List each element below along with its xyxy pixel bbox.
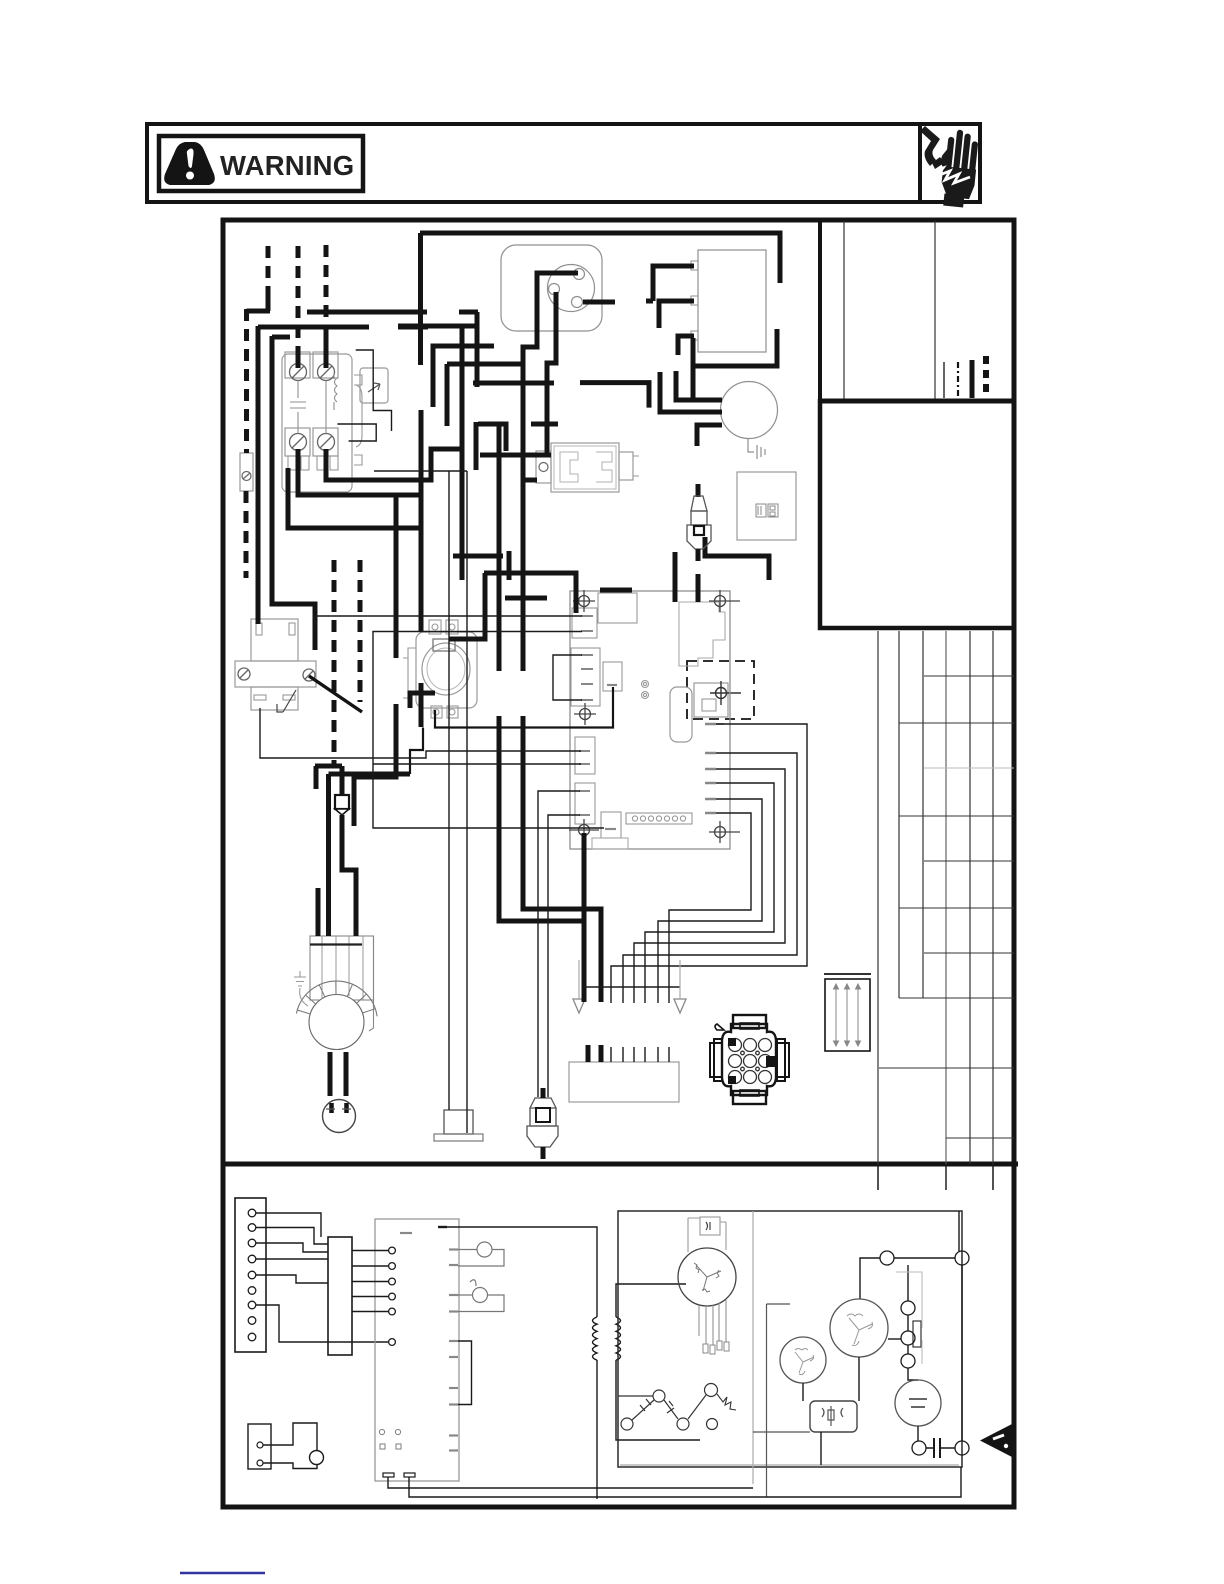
- wire staircase v2: [445, 364, 450, 426]
- board bottom comb: [626, 813, 692, 824]
- capacitor circle: [895, 1380, 941, 1426]
- flame sensor base: [527, 1126, 558, 1147]
- wire relay down: [820, 1432, 822, 1465]
- wire inducer line hot: [523, 273, 578, 671]
- board screw BR: [709, 821, 740, 843]
- door switch pin 1: [256, 623, 262, 635]
- chart row line 3: [924, 767, 1014, 769]
- wire junction elbow: [315, 764, 342, 769]
- lo block: [569, 1062, 679, 1102]
- wire left low stub: [505, 596, 547, 601]
- transformer primary coil: [593, 1317, 598, 1360]
- flame sensor top stub: [541, 1088, 546, 1098]
- gas valve solenoid tab 2: [446, 620, 458, 634]
- resistor arrows: [834, 984, 861, 1046]
- wire contact to motor: [860, 1258, 880, 1299]
- contactor tab 1: [288, 456, 296, 470]
- wire valve bypass lower: [354, 704, 396, 826]
- wire mid right elbow: [705, 537, 769, 580]
- flame rollout rounded box: [670, 687, 692, 742]
- pressure switch body: [551, 443, 619, 492]
- motor M3 circle: [830, 1299, 888, 1357]
- legend box left border: [818, 220, 822, 401]
- board screw TL: [573, 590, 595, 612]
- wire wrap tee: [691, 338, 696, 400]
- nine pin sockets: [729, 1039, 772, 1084]
- board screw TR: [709, 590, 740, 612]
- igniter circle: [458, 1242, 504, 1266]
- line fuse screw: [242, 472, 251, 481]
- motor M1 circle: [678, 1248, 736, 1306]
- wire top cross piece: [459, 310, 478, 315]
- speed tap link 3: [688, 1395, 706, 1419]
- wire inducer feed 2: [676, 371, 722, 400]
- junction box funnel: [335, 809, 349, 815]
- transformer terminal 2: [691, 296, 698, 305]
- board connector P2 pins: [581, 655, 593, 700]
- pressure switch right port: [619, 452, 633, 480]
- motor M1 leads: [699, 1300, 726, 1345]
- igniter base plate: [434, 1134, 483, 1141]
- blower housing right edge: [369, 936, 374, 1031]
- board screw BL: [569, 819, 599, 841]
- relay box: [810, 1401, 857, 1432]
- gas valve body: [416, 632, 477, 708]
- wire board P1 upper: [315, 616, 582, 630]
- gas valve terminal block: [433, 639, 455, 651]
- contactor top plate 1: [285, 352, 310, 378]
- speed tap link 1: [632, 1399, 654, 1420]
- wire cap down: [917, 1426, 919, 1441]
- board bottom connector: [601, 812, 621, 838]
- limit rect: [913, 1321, 921, 1347]
- inducer motor circle: [721, 382, 778, 439]
- chart row line 9: [879, 1067, 1014, 1069]
- wire door switch heavy lever: [309, 676, 362, 712]
- pressure switch port lines: [633, 456, 639, 476]
- legend column divider 1: [843, 221, 845, 401]
- contactor bottom plate 1: [285, 428, 310, 456]
- wire right riser: [961, 1265, 963, 1441]
- warning triangle icon: [164, 142, 215, 185]
- wire strip 5: [256, 1275, 328, 1283]
- wire inducer neutral: [547, 292, 556, 456]
- legend sample heavy dashed wire: [983, 356, 989, 398]
- nine pin connector bottom slot: [740, 1090, 759, 1096]
- chart row line 4: [899, 815, 1014, 817]
- wire cross mid: [473, 381, 554, 386]
- wire inducer feed 3: [697, 425, 722, 446]
- right box inner gray edge: [620, 1211, 959, 1484]
- speed tap link 2: [664, 1400, 678, 1419]
- nine pin connector nub: [715, 1024, 724, 1030]
- door switch upper body: [251, 619, 298, 661]
- board screw ML: [574, 703, 596, 725]
- wire junction drop: [342, 815, 356, 936]
- contactor tab 4: [330, 456, 338, 470]
- junction box: [335, 795, 349, 809]
- blower scroll blades: [297, 981, 375, 1014]
- wire L1 dash-dot drop: [244, 309, 249, 453]
- wire L3 solid tail: [324, 332, 329, 368]
- nine pin connector body: [722, 1024, 776, 1095]
- motor M1 winding: [694, 1263, 721, 1292]
- wire inducer third: [583, 300, 615, 305]
- wire strip 7: [256, 1305, 388, 1342]
- wire flame lead 1: [538, 791, 580, 1097]
- legend sample heavy wire: [970, 360, 975, 398]
- wire M3 to relay: [858, 1357, 860, 1401]
- board bottom connector tick: [605, 828, 616, 830]
- igniter pedestal: [444, 1110, 473, 1134]
- board lower leds: [379, 1429, 401, 1449]
- speed tap circle 5: [707, 1419, 718, 1430]
- board right top tick: [705, 724, 841, 813]
- speed tap circle 3: [621, 1418, 633, 1430]
- gas valve knob: [422, 643, 470, 695]
- wire igniter lead 1: [448, 471, 450, 1110]
- wire L1 elbow: [247, 309, 271, 314]
- nine pin connector right wing: [777, 1039, 789, 1081]
- wire long riser mid: [460, 325, 465, 580]
- wire blower lead 1: [328, 1052, 333, 1096]
- speed tap stub: [618, 1395, 653, 1397]
- door switch lever: [277, 690, 296, 712]
- cap symbol box: [688, 1217, 726, 1252]
- wire top cross A: [478, 424, 506, 451]
- wire blower lead 2: [344, 1052, 349, 1096]
- wire flame lead 2: [548, 815, 580, 1097]
- board MV tick: [607, 684, 617, 686]
- wire right cross 1: [453, 554, 503, 559]
- wire hum tick lead: [716, 723, 724, 725]
- board relay box: [598, 593, 637, 623]
- wire aux thin 2: [337, 424, 376, 441]
- contactor screw 1: [290, 364, 307, 381]
- contactor body: [282, 354, 352, 492]
- cap K2 bars: [934, 1438, 940, 1458]
- wire dashed short drop: [358, 560, 363, 702]
- wire thermostat staircase: [611, 724, 807, 1003]
- gas valve bottom tab 1: [431, 706, 442, 718]
- wire blower stub 1: [316, 888, 321, 936]
- thermostat strip: [235, 1198, 266, 1352]
- wire strip 3: [256, 1243, 328, 1252]
- wire transformer wrap: [691, 329, 777, 366]
- wire transformer T1: [653, 266, 694, 301]
- pressure switch left terminal: [536, 451, 551, 483]
- board bottom tick 1: [383, 1473, 394, 1477]
- gas valve knob inner: [427, 648, 465, 690]
- wire MV riser: [410, 728, 423, 775]
- board bottom tick 2: [404, 1473, 415, 1477]
- door switch lower pin 2: [283, 695, 295, 700]
- wire transformer T2: [659, 301, 694, 328]
- motor M3 winding: [847, 1314, 873, 1346]
- contactor tab 2: [301, 456, 309, 470]
- wire strip 4: [256, 1258, 328, 1260]
- run capacitor plug circle: [323, 1100, 356, 1133]
- spark igniter cone: [691, 496, 707, 511]
- humidifier inner square: [702, 699, 716, 711]
- wire junction riser: [340, 766, 345, 795]
- wire aux thin 1: [356, 350, 392, 431]
- transformer primary lead: [447, 1227, 597, 1317]
- wire inducer line hot lower: [523, 716, 601, 1002]
- gas valve solenoid tab 1: [429, 620, 441, 634]
- speed tap circle 1: [653, 1390, 665, 1402]
- wire divider stub 2: [945, 1164, 947, 1190]
- chart vertical line C: [922, 631, 924, 998]
- wire M2 to relay: [802, 1383, 804, 1401]
- limit column bracket: [896, 1272, 922, 1364]
- speed tap circle 2: [705, 1384, 718, 1397]
- inducer motor housing: [501, 245, 602, 331]
- contactor tab 3: [317, 456, 325, 470]
- wire board bottom 1: [388, 1477, 753, 1488]
- gas valve bottom tab 2: [447, 706, 458, 718]
- wire contactor left lower: [298, 449, 421, 495]
- inducer plug pin 1: [574, 269, 585, 280]
- pressure switch terminal circle: [539, 463, 548, 472]
- junction box contacts: [756, 504, 778, 517]
- contactor coil symbol: [290, 381, 306, 433]
- legend sample thin wire: [943, 362, 945, 398]
- wire mid drop 396: [394, 495, 399, 658]
- chart row line 1: [924, 675, 1014, 677]
- wire L1 dashed drop: [266, 246, 271, 298]
- wire right stub v2: [507, 551, 512, 580]
- chart row line 10: [946, 1137, 1014, 1139]
- chart vertical line D: [945, 631, 947, 1190]
- run capacitor pins: [332, 1103, 347, 1113]
- door switch lower pin 1: [254, 695, 266, 700]
- footer rule: [180, 1572, 265, 1574]
- contactor top plate 2: [313, 352, 338, 378]
- chart vertical line B: [898, 631, 900, 998]
- interlock wire upper: [263, 1423, 317, 1450]
- contact K2 right: [955, 1441, 969, 1455]
- wire second drop: [288, 468, 421, 632]
- speed tap circle 4: [677, 1418, 689, 1430]
- limit circles column: [901, 1301, 915, 1368]
- wire board bottom 2: [409, 1467, 961, 1497]
- line fuse block: [240, 453, 253, 491]
- wire top feeder: [418, 233, 423, 365]
- wire stub upper: [475, 312, 480, 387]
- wire riser elbow: [398, 324, 477, 329]
- board input terminals: [389, 1247, 396, 1254]
- right schematic box: [618, 1211, 962, 1467]
- wire left feeder elbow: [258, 325, 369, 330]
- wire dashed mid drop: [332, 560, 337, 766]
- section divider line: [223, 1162, 1018, 1167]
- door switch lower body: [251, 687, 298, 710]
- spark igniter top stub: [696, 484, 701, 497]
- legend column divider 2: [934, 221, 936, 401]
- chart row line 5: [924, 860, 1014, 862]
- inducer plug pin 2: [549, 284, 560, 295]
- blower motor circle: [309, 995, 364, 1050]
- board test pads: [642, 681, 649, 699]
- wire divider stub 1: [877, 1164, 879, 1190]
- contactor aux contact: [368, 383, 380, 392]
- main diagram border: [223, 220, 1014, 1507]
- wire left feeder elbow right: [398, 325, 428, 330]
- inducer plug circle: [548, 265, 595, 312]
- notes box: [820, 401, 1014, 628]
- board connector P1 pins: [581, 616, 593, 631]
- wire cross feeder: [307, 310, 427, 315]
- wire L2 dashed drop: [296, 246, 301, 352]
- flame sensor inner: [536, 1108, 550, 1122]
- relay contacts: [822, 1406, 843, 1426]
- wire T1 foot: [646, 299, 653, 304]
- wire left feeder: [256, 326, 261, 624]
- wire K2 link: [926, 1447, 955, 1449]
- chart row line 7: [924, 952, 1014, 954]
- wire MV drop: [435, 687, 613, 728]
- pressure switch body inner: [554, 446, 616, 489]
- ignition control board outline: [570, 591, 730, 849]
- spark igniter body: [687, 525, 711, 549]
- board connector P3: [575, 737, 595, 774]
- resistor box: [825, 979, 870, 1051]
- wire bundle stubs: [611, 1047, 669, 1062]
- transformer terminal 3: [691, 331, 698, 340]
- wire contact link: [894, 1257, 955, 1259]
- humidifier terminal dashed box: [687, 661, 754, 719]
- board tick marks: [400, 1233, 458, 1451]
- wire strip 1: [256, 1213, 321, 1237]
- motor M1 lead squares: [703, 1341, 729, 1354]
- wire box top run: [958, 1211, 960, 1251]
- wire right stub v1: [460, 491, 465, 580]
- spark igniter bottom stub: [696, 549, 701, 561]
- contact K1 right: [955, 1251, 969, 1265]
- wire top cross B: [531, 422, 558, 427]
- wire inducer feed 1: [660, 372, 722, 412]
- board connector P2: [571, 648, 600, 706]
- thermostat arrow 1: [573, 999, 585, 1013]
- flame sensor circle: [458, 1280, 504, 1312]
- limit bracket: [458, 1341, 472, 1405]
- blower housing top line: [310, 943, 362, 945]
- contactor screw 3: [290, 434, 307, 451]
- transformer secondary coil: [616, 1317, 621, 1360]
- wire junction stub: [314, 766, 319, 789]
- wire left elbow top: [272, 335, 290, 340]
- contactor aux switch box: [360, 368, 388, 403]
- door switch pin 2: [289, 623, 295, 635]
- wire inducer feed stub: [580, 383, 649, 408]
- board right ticks: [705, 724, 716, 813]
- motor M2 circle: [780, 1337, 826, 1383]
- wire valve lower left: [410, 693, 435, 708]
- contact K2 left: [912, 1441, 926, 1455]
- chart vertical line A: [877, 631, 879, 1190]
- door switch screw 1: [238, 668, 250, 680]
- interlock box: [248, 1424, 271, 1469]
- humidifier screw: [710, 681, 741, 705]
- wire staircase v1: [433, 346, 494, 407]
- transformer primary return: [596, 1360, 598, 1499]
- wire board left stub: [600, 588, 632, 593]
- thermostat arrow 2: [674, 999, 686, 1013]
- flame sensor plug: [530, 1098, 556, 1126]
- board connector P1: [572, 608, 597, 638]
- board bottom pad: [592, 838, 628, 849]
- wire pressure switch branch: [523, 478, 537, 483]
- wire valve feed: [449, 573, 485, 639]
- wire L2 solid tail: [296, 350, 301, 368]
- contactor screw 4: [318, 434, 335, 451]
- wire lo block stub A: [586, 1045, 591, 1062]
- wire M3 to limit: [888, 1338, 901, 1340]
- spark igniter tip: [694, 526, 704, 535]
- connector bar: [328, 1237, 352, 1355]
- wire divider stub 3: [992, 1164, 994, 1190]
- pressure switch inner contour: [560, 452, 612, 482]
- spark igniter neck: [691, 511, 707, 525]
- motor M2 winding: [795, 1349, 814, 1375]
- blower scroll outer arc: [296, 981, 377, 1016]
- humidifier inner block: [694, 683, 728, 717]
- wire L1 solid top: [266, 296, 271, 311]
- inducer motor ground: [748, 438, 765, 459]
- board relay boot outline: [679, 602, 725, 666]
- gas valve left bracket: [403, 648, 416, 698]
- nine pin connector left wing: [710, 1039, 722, 1081]
- wire board P3 lower: [373, 763, 581, 765]
- resistor box top line: [824, 973, 871, 975]
- wire feeder drop A: [497, 424, 502, 671]
- wire board low left: [373, 632, 604, 829]
- blower housing ribs: [322, 936, 363, 1000]
- contactor mount flange: [354, 375, 362, 465]
- run capacitor pin tabs: [326, 1108, 351, 1110]
- wire box left riser: [753, 1304, 810, 1497]
- control board lower outline: [375, 1219, 459, 1481]
- legend sample dash-dot wire: [957, 362, 959, 398]
- wire stub A: [474, 422, 479, 470]
- warning banner outer box: [147, 124, 980, 202]
- interlock lamp: [310, 1451, 324, 1465]
- board connector P3 pins: [579, 751, 590, 764]
- nine pin connector bottom tab: [733, 1091, 766, 1104]
- wire transformer T3: [678, 336, 694, 355]
- nine pin connector top slot: [740, 1023, 759, 1029]
- junction box right: [737, 472, 796, 540]
- shock hand icon box: [920, 124, 980, 202]
- contactor bottom plate 2: [313, 428, 338, 456]
- flame sensor bottom stub: [541, 1147, 546, 1159]
- wire cross low: [329, 772, 411, 777]
- wire right cross 2: [484, 573, 576, 613]
- chart row line 6: [899, 907, 1014, 909]
- interlock wire lower: [263, 1463, 317, 1469]
- wire board to staircase A: [582, 833, 587, 1002]
- wire P2 bracket: [553, 655, 582, 700]
- wire arrow lead 1: [578, 960, 580, 999]
- door switch plate: [235, 661, 316, 687]
- wires bar to board: [352, 1250, 388, 1252]
- wire left long riser: [272, 336, 315, 650]
- wire lo block stub B: [599, 1045, 604, 1062]
- capacitor plates: [909, 1399, 927, 1407]
- transformer terminal 1: [691, 261, 698, 270]
- wire blower riser: [326, 774, 331, 936]
